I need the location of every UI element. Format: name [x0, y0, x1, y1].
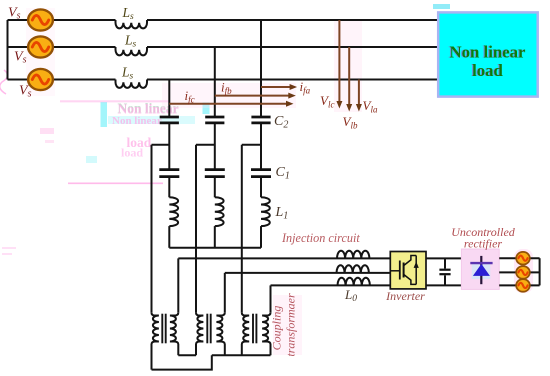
wire branch 2 L1 to bus — [214, 226, 216, 248]
capacitor C2 branch 3 — [251, 117, 270, 123]
svg-text:C2: C2 — [274, 114, 288, 131]
wire branch 2 C1 to L1 — [214, 178, 216, 198]
AC source right 2 — [516, 266, 530, 279]
wire injection row b — [225, 272, 390, 274]
svg-text:Vlc: Vlc — [320, 93, 334, 110]
svg-text:load: load — [472, 61, 503, 80]
transformer T1 primary winding — [152, 313, 159, 370]
inverter box — [390, 252, 426, 289]
wire transformer 1 right terminal riser — [177, 258, 179, 312]
wire phase a (top row) — [41, 19, 439, 21]
wire branch 1 C2 to C1 — [168, 124, 170, 169]
wire branch 2 left wire down — [195, 145, 197, 313]
wire dc top — [426, 257, 461, 259]
inductor Ls phase 1 — [116, 20, 148, 28]
wire right supply bus — [539, 258, 541, 285]
AC source Vs3 — [28, 69, 53, 90]
wire rectifier ac row 3 — [499, 284, 539, 286]
svg-text:Ls: Ls — [121, 65, 134, 82]
inductor L0 row c — [338, 278, 370, 286]
uncontrolled rectifier box — [461, 249, 499, 289]
transformer T3 core — [253, 314, 256, 344]
wire branch 2 vertical tap — [214, 47, 216, 116]
inductor L0 row a — [337, 251, 369, 259]
non linear load box — [438, 12, 538, 96]
wire transformer 3 right terminal riser — [270, 285, 272, 312]
inductor Ls phase 2 — [116, 47, 148, 55]
wire injection row a — [178, 257, 390, 259]
wire branch 1 L1 to bus — [168, 226, 170, 248]
transformer T3 primary winding — [242, 313, 249, 356]
capacitor C2 branch 2 — [205, 117, 224, 123]
capacitor C1 branch 3 — [251, 170, 271, 177]
watermark ghost text Non linear — [101, 101, 210, 127]
capacitor C1 branch 2 — [205, 170, 225, 177]
wire secondary bottom bus — [212, 354, 271, 356]
wire branch 1 jog to left wire — [152, 144, 170, 146]
svg-text:Vlb: Vlb — [343, 114, 358, 131]
AC source Vs1 — [28, 9, 53, 30]
svg-text:Ls: Ls — [124, 33, 137, 50]
wire branch 2 C2 to C1 — [214, 124, 216, 169]
transformer T2 primary winding — [196, 313, 203, 356]
wire branch 3 C2 to C1 — [260, 124, 262, 169]
wire rectifier ac row 2 — [499, 271, 539, 273]
capacitor C1 branch 1 — [159, 170, 179, 177]
svg-text:Inverter: Inverter — [385, 289, 425, 303]
transformer T3 secondary winding — [262, 313, 270, 356]
svg-text:L1: L1 — [275, 205, 289, 222]
inductor L0 row b — [337, 265, 369, 273]
wire branch 3 left wire down — [241, 145, 243, 313]
wire injection row c — [271, 284, 391, 286]
wire branch 1 vertical tap — [168, 80, 170, 117]
inductor L1 branch 2 — [215, 197, 224, 226]
wire bottom return — [152, 355, 212, 369]
svg-text:C1: C1 — [276, 165, 290, 182]
svg-text:ifb: ifb — [221, 80, 232, 97]
inductor L1 branch 3 — [261, 197, 270, 226]
svg-text:rectifier: rectifier — [464, 237, 503, 251]
capacitor C2 branch 1 — [160, 117, 179, 123]
svg-text:Vs: Vs — [14, 50, 27, 66]
wire branch 1 left wire down — [151, 145, 153, 313]
wire branch 3 vertical tap — [260, 20, 262, 116]
svg-text:Non linear: Non linear — [112, 115, 162, 127]
IGBT U1 — [390, 256, 419, 285]
svg-text:Vla: Vla — [363, 98, 378, 115]
svg-text:Ls: Ls — [122, 5, 135, 22]
svg-text:Vs: Vs — [8, 6, 21, 22]
AC source right 1 — [516, 252, 530, 265]
wire neutral bus left — [8, 20, 29, 80]
voltage arrow Vlc — [336, 20, 342, 109]
inductor Ls phase 3 — [116, 80, 148, 88]
capacitor dc link — [444, 258, 446, 285]
wire filter bottom bus — [169, 247, 261, 249]
wire T1 secondary to T2 primary — [178, 354, 196, 356]
wire branch 3 L1 to bus — [260, 226, 262, 248]
svg-text:Non linear: Non linear — [450, 43, 527, 62]
watermark pink streaks — [0, 70, 170, 254]
wire phase b (middle row) — [41, 46, 439, 48]
svg-text:Injection circuit: Injection circuit — [281, 231, 360, 245]
wire rectifier ac row 1 — [499, 257, 539, 259]
wire branch 3 C1 to L1 — [260, 178, 262, 198]
wire branch 1 C1 to L1 — [168, 178, 170, 198]
svg-text:L0: L0 — [344, 287, 357, 304]
current arrow ifb — [215, 93, 296, 99]
watermark ghost text load — [121, 135, 152, 160]
current arrow ifc — [169, 101, 293, 107]
transformer T1 core — [162, 314, 165, 344]
wire phase c (bottom row) — [41, 79, 439, 81]
svg-text:transformaer: transformaer — [284, 293, 298, 357]
svg-text:Coupling: Coupling — [270, 306, 284, 351]
transformer T2 core — [207, 314, 210, 344]
svg-text:load: load — [121, 146, 143, 160]
wire dc bottom — [426, 284, 461, 286]
wire branch 2 jog to left wire — [196, 144, 215, 146]
svg-text:ifa: ifa — [300, 79, 311, 96]
voltage arrow Vlb — [346, 47, 352, 112]
inductor L1 branch 1 — [169, 197, 178, 226]
transformer T1 secondary winding — [170, 313, 178, 356]
diode D1 — [470, 256, 492, 284]
voltage arrow Vla — [356, 80, 362, 112]
AC source right 3 — [516, 279, 530, 292]
transformer T2 secondary winding — [216, 313, 224, 356]
wire branch 3 jog to left wire — [242, 144, 261, 146]
wire transformer 2 right terminal riser — [224, 273, 226, 313]
AC source Vs2 — [28, 36, 53, 57]
current arrow ifa — [261, 84, 297, 90]
